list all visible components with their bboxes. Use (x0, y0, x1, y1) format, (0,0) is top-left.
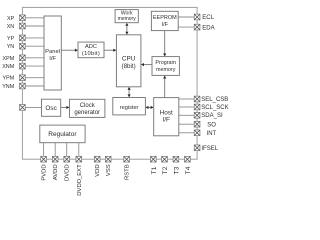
wire Regulator to AVDD (54, 143, 56, 160)
svg-text:DVDD: DVDD (65, 164, 71, 181)
pad YN (20, 43, 26, 49)
svg-text:I/F: I/F (162, 22, 169, 28)
block ADC (10bit) (78, 42, 104, 58)
svg-text:IFSEL: IFSEL (201, 146, 218, 152)
wire Host to SO (179, 123, 195, 125)
svg-text:ADC: ADC (85, 44, 97, 50)
svg-text:Host: Host (160, 109, 173, 116)
svg-text:Clock: Clock (80, 103, 96, 109)
svg-text:register: register (120, 105, 139, 111)
svg-text:CPU: CPU (122, 55, 136, 62)
pad SCL_SCK (194, 104, 200, 110)
svg-text:T4: T4 (185, 166, 192, 174)
pad SEL_CSB (194, 96, 200, 102)
wire Regulator to PVDD (43, 143, 45, 160)
svg-text:T2: T2 (162, 166, 169, 174)
block CPU (8bit) (116, 35, 140, 87)
wire Host to SEL_CSB (179, 98, 195, 100)
pad DVDD_EXT (76, 156, 82, 162)
pad IFSEL (194, 145, 200, 151)
pad T3 (173, 156, 179, 162)
pad SO (194, 121, 200, 127)
pad ECL (194, 14, 200, 20)
double arrow Work memory / CPU (125, 23, 128, 35)
block EEPROM I/F (151, 11, 178, 30)
block Osc (42, 99, 61, 116)
arrow Panel I/F to ADC (61, 49, 78, 52)
svg-text:YNM: YNM (2, 84, 14, 90)
svg-text:VDD: VDD (95, 164, 101, 176)
wire YN to Panel I/F (25, 45, 44, 47)
wire YNM to Panel I/F (25, 85, 44, 87)
svg-text:SEL_CSB: SEL_CSB (201, 97, 228, 103)
pad T2 (162, 156, 168, 162)
svg-text:T1: T1 (151, 166, 158, 174)
svg-text:XN: XN (7, 24, 15, 30)
svg-text:memory: memory (156, 67, 176, 73)
svg-text:XPM: XPM (3, 56, 15, 62)
svg-text:XP: XP (7, 16, 15, 22)
pad YNM (20, 83, 26, 89)
svg-text:INT: INT (207, 131, 217, 137)
svg-text:T3: T3 (173, 166, 180, 174)
pad T4 (185, 156, 191, 162)
wire XNM to Panel I/F (25, 65, 44, 67)
svg-text:Regulator: Regulator (48, 131, 77, 138)
block Clock generator (70, 99, 105, 117)
svg-text:VSS: VSS (106, 164, 112, 176)
pad XPM (20, 55, 26, 61)
pad YP (20, 35, 26, 41)
svg-text:RSTB: RSTB (125, 164, 131, 180)
pad INT (194, 130, 200, 136)
svg-text:EDA: EDA (202, 25, 214, 31)
pad XNM (20, 63, 26, 69)
block Program memory (152, 57, 179, 76)
arrow Host I/F up to Program memory (163, 75, 166, 97)
wire XPM to Panel I/F (25, 57, 44, 59)
wire YPM to Panel I/F (25, 77, 44, 79)
wire EEPROM to ECL (178, 16, 194, 18)
block Regulator (40, 125, 85, 143)
svg-text:Osc: Osc (45, 105, 57, 112)
pad RSTB (124, 156, 130, 162)
svg-text:Panel: Panel (45, 49, 60, 55)
svg-text:(8bit): (8bit) (122, 63, 136, 70)
svg-text:generator: generator (74, 110, 100, 116)
chip boundary frame (22, 7, 197, 159)
wire Regulator to DVDD_EXT (78, 143, 80, 160)
wire Host to INT (179, 132, 195, 134)
double arrow register / Host I/F (145, 106, 153, 109)
pad VSS (105, 156, 111, 162)
pad DVDD (64, 156, 70, 162)
svg-text:XNM: XNM (2, 64, 14, 70)
pad T1 (150, 156, 156, 162)
svg-text:YP: YP (7, 36, 15, 42)
pad osc (unlabeled) (20, 105, 26, 111)
wire XN to Panel I/F (25, 25, 44, 27)
block Host I/F (154, 98, 179, 136)
pad VDD (94, 156, 100, 162)
wire osc pad to Osc (25, 106, 42, 108)
pad EDA (194, 24, 200, 30)
wire EEPROM to EDA (178, 26, 194, 28)
arrow Osc to Clock generator (61, 106, 70, 109)
wire XP to Panel I/F (25, 17, 44, 19)
svg-text:memory: memory (118, 16, 137, 22)
svg-text:I/F: I/F (49, 56, 56, 62)
wire Host to SDA_SI (179, 114, 195, 116)
pad SDA_SI (194, 112, 200, 118)
wire Host to SCL_SCK (179, 106, 195, 108)
svg-text:ECL: ECL (202, 15, 214, 21)
wire Regulator to DVDD (66, 143, 68, 160)
svg-text:YPM: YPM (3, 76, 15, 82)
svg-text:SO: SO (207, 122, 216, 128)
arrow Program memory to CPU (141, 63, 152, 66)
svg-text:YN: YN (7, 44, 15, 50)
svg-text:SCL_SCK: SCL_SCK (201, 105, 228, 111)
pad YPM (20, 75, 26, 81)
svg-text:DVDD_EXT: DVDD_EXT (77, 164, 83, 196)
arrow ADC to CPU (104, 49, 116, 52)
block Work memory (115, 10, 138, 23)
svg-text:(10bit): (10bit) (82, 51, 100, 57)
block Panel I/F (44, 16, 61, 90)
svg-text:EEPROM: EEPROM (153, 15, 177, 21)
arrow EEPROM I/F down to Program memory (163, 31, 166, 57)
svg-text:PVDD: PVDD (42, 164, 48, 180)
wire YP to Panel I/F (25, 37, 44, 39)
svg-text:I/F: I/F (162, 117, 170, 124)
block register (113, 98, 146, 115)
svg-text:Program: Program (155, 60, 176, 66)
pad AVDD (52, 156, 58, 162)
pad XP (20, 15, 26, 21)
svg-text:AVDD: AVDD (53, 164, 59, 180)
pad PVDD (41, 156, 47, 162)
svg-text:SDA_SI: SDA_SI (201, 113, 223, 119)
pad XN (20, 23, 26, 29)
double arrow CPU / register (128, 87, 131, 98)
